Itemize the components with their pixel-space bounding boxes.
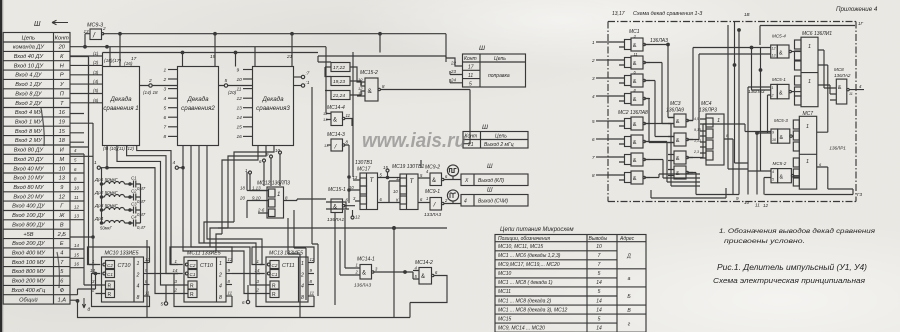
wire bottom common rail xyxy=(78,301,411,318)
svg-text:3: 3 xyxy=(592,76,595,81)
wire riser bundle xyxy=(739,30,771,195)
svg-text:2-6: 2-6 xyxy=(257,208,265,213)
wire 400kHz row xyxy=(70,274,96,295)
svg-text:Вход 100 ДУ: Вход 100 ДУ xyxy=(12,213,46,219)
svg-text:12: 12 xyxy=(396,176,401,181)
svg-text:14: 14 xyxy=(173,268,178,273)
wire to 2MHz table xyxy=(463,90,470,144)
svg-text:5: 5 xyxy=(598,271,601,277)
capacitor C3 xyxy=(130,202,146,218)
svg-text:Декада: Декада xyxy=(261,96,284,103)
svg-text:Выводы: Выводы xyxy=(589,236,608,242)
wire МС2 outputs to МС4 xyxy=(645,124,700,187)
svg-text:С2: С2 xyxy=(190,263,196,268)
svg-text:18: 18 xyxy=(59,138,66,144)
svg-text:Др1 50мкГ: Др1 50мкГ xyxy=(94,177,118,182)
svg-text:136ЛА2: 136ЛА2 xyxy=(834,73,851,78)
svg-text:Др2 50мкГ: Др2 50мкГ xyxy=(94,190,118,195)
svg-text:Е: Е xyxy=(60,241,64,247)
svg-text:12: 12 xyxy=(74,204,79,209)
svg-text:Вход 200 ДУ: Вход 200 ДУ xyxy=(12,241,46,247)
wires table rows to decade1 inputs xyxy=(70,55,103,57)
svg-text:15: 15 xyxy=(383,165,388,170)
svg-text:5: 5 xyxy=(598,289,601,295)
svg-text:С2: С2 xyxy=(131,189,137,194)
svg-text:Позиции, обозначения: Позиции, обозначения xyxy=(498,236,550,242)
svg-text:Вход 4 ДУ: Вход 4 ДУ xyxy=(15,73,43,79)
svg-text:1: 1 xyxy=(808,79,811,85)
svg-text:1: 1 xyxy=(137,261,140,267)
decade comparison block 2 xyxy=(178,67,219,146)
svg-text:МС5-1: МС5-1 xyxy=(772,77,786,82)
decade comparison block 1 xyxy=(103,67,140,146)
svg-text:&: & xyxy=(780,175,784,181)
wire table stub bus B xyxy=(70,114,96,274)
svg-text:МС5-4: МС5-4 xyxy=(772,34,786,39)
wire bundle decade1 to counter2 xyxy=(107,146,178,294)
IC МС7 136ЛР1 xyxy=(793,65,853,189)
svg-text:2,3: 2,3 xyxy=(693,150,699,154)
svg-text:(9) (10)(11) (12): (9) (10)(11) (12) xyxy=(103,146,134,151)
capacitor C4 xyxy=(130,215,146,231)
counter IC МС10 xyxy=(88,247,151,307)
wire МС15-1 to МС17 xyxy=(331,177,352,209)
svg-text:9: 9 xyxy=(736,196,739,201)
svg-text:Выход (СЧИ): Выход (СЧИ) xyxy=(478,199,508,205)
svg-text:Вход 100 МУ: Вход 100 МУ xyxy=(12,260,47,266)
svg-text:Конт: Конт xyxy=(464,56,477,62)
svg-text:Вход 800 МУ: Вход 800 МУ xyxy=(12,269,47,275)
svg-text:13: 13 xyxy=(237,106,243,112)
svg-text:20: 20 xyxy=(58,45,66,51)
connector table 2MHz xyxy=(463,124,528,148)
svg-text:&: & xyxy=(633,140,637,146)
svg-text:17: 17 xyxy=(468,65,474,71)
node 5 between counters xyxy=(164,302,167,305)
svg-text:3: 3 xyxy=(164,86,167,92)
svg-text:14: 14 xyxy=(237,115,243,121)
svg-text:14: 14 xyxy=(90,268,95,273)
svg-text:Ш: Ш xyxy=(34,21,41,28)
svg-text:11: 11 xyxy=(346,113,351,118)
svg-text:18: 18 xyxy=(240,186,245,191)
svg-text:12: 12 xyxy=(355,215,360,220)
svg-text:2,Б: 2,Б xyxy=(57,232,67,238)
svg-text:7: 7 xyxy=(598,262,601,268)
svg-text:&: & xyxy=(633,97,637,103)
svg-text:11: 11 xyxy=(755,203,760,208)
gate МС5-2 xyxy=(771,161,799,183)
wire cap right bus xyxy=(140,184,142,223)
svg-text:МС5-3: МС5-3 xyxy=(774,118,788,123)
wire long vertical x734 xyxy=(728,22,748,170)
svg-text:12: 12 xyxy=(59,194,66,200)
svg-text:2: 2 xyxy=(148,78,152,84)
svg-text:Вход 1 ДУ: Вход 1 ДУ xyxy=(15,82,43,88)
svg-text:СТ11: СТ11 xyxy=(282,263,295,269)
counter IC МС13 xyxy=(252,247,315,307)
connector table SChI xyxy=(461,188,528,207)
svg-text:&: & xyxy=(838,85,842,91)
pin labels above decades xyxy=(104,54,293,67)
svg-text:11: 11 xyxy=(237,86,242,92)
wire meander to KL xyxy=(452,176,454,179)
svg-text:5: 5 xyxy=(164,106,167,112)
svg-text:Вход 10 МУ: Вход 10 МУ xyxy=(13,176,44,182)
svg-text:4,5: 4,5 xyxy=(694,117,699,121)
svg-text:Адрес: Адрес xyxy=(619,236,635,242)
svg-text:12: 12 xyxy=(237,96,243,102)
svg-text:Выход 2 мГц: Выход 2 мГц xyxy=(484,142,514,148)
svg-text:1: 1 xyxy=(806,124,809,130)
meander symbol output KL xyxy=(447,165,458,176)
svg-text:Схема электрическая принципи: Схема электрическая принципиальная xyxy=(713,278,865,285)
gate МС14-2 xyxy=(404,260,447,303)
svg-text:1: 1 xyxy=(426,196,428,201)
svg-text:МС1 ... МС8 ( декада 1): МС1 ... МС8 ( декада 1) xyxy=(498,280,553,286)
inductor Др4 xyxy=(94,216,130,231)
svg-text:10: 10 xyxy=(59,166,66,172)
svg-text:сравнения3: сравнения3 xyxy=(256,105,290,112)
svg-text:1: 1 xyxy=(806,159,809,165)
node 11 right of decade3 xyxy=(294,85,302,87)
svg-text:136ЛР3: 136ЛР3 xyxy=(699,108,717,114)
svg-text:Цепь: Цепь xyxy=(22,35,35,41)
node 15 xyxy=(386,169,389,172)
svg-text:Декада: Декада xyxy=(109,96,132,103)
svg-text:23: 23 xyxy=(450,69,456,74)
counter IC МС11 xyxy=(170,247,233,307)
wires pinboxes to МС15-2 xyxy=(350,67,365,96)
svg-text:С3: С3 xyxy=(131,202,137,207)
svg-text:136ЛА3: 136ЛА3 xyxy=(650,38,668,44)
svg-text:&: & xyxy=(362,271,366,277)
svg-text:R: R xyxy=(108,284,112,290)
svg-text:сравнения 1: сравнения 1 xyxy=(103,105,138,112)
svg-text:8: 8 xyxy=(137,295,140,301)
svg-text:Цепь: Цепь xyxy=(495,134,507,140)
svg-text:R: R xyxy=(190,292,194,298)
svg-text:R: R xyxy=(108,292,112,298)
svg-text:5: 5 xyxy=(161,302,164,307)
svg-text:8: 8 xyxy=(219,295,222,301)
wires decade2 inputs xyxy=(168,69,178,71)
svg-text:9,10: 9,10 xyxy=(252,196,261,201)
wire vertical x353 from top xyxy=(352,52,354,156)
svg-text:МС5-2: МС5-2 xyxy=(773,161,787,166)
svg-text:В: В xyxy=(60,222,64,228)
node pins below decade3 xyxy=(263,159,266,162)
svg-text:Д: Д xyxy=(626,254,631,260)
svg-text:(16): (16) xyxy=(124,61,133,67)
svg-text:С1: С1 xyxy=(272,272,278,277)
svg-text:7: 7 xyxy=(164,125,167,131)
wire counter outputs chain xyxy=(150,274,261,302)
connector table Sh1 xyxy=(3,33,70,305)
gate МС9-3 xyxy=(84,23,107,40)
svg-text:2: 2 xyxy=(771,94,774,98)
pen stroke artifact xyxy=(41,108,44,146)
svg-text:МС14-2: МС14-2 xyxy=(415,260,433,266)
wire vert drops to decade tops xyxy=(110,34,380,67)
svg-text:(5): (5) xyxy=(93,88,99,93)
svg-text:11: 11 xyxy=(228,291,233,296)
svg-text:С2: С2 xyxy=(107,263,113,268)
wire long vertical x394 xyxy=(393,228,395,318)
svg-text:Р: Р xyxy=(60,73,64,79)
svg-text:&: & xyxy=(633,79,637,85)
svg-text:20: 20 xyxy=(239,196,245,201)
svg-text:11: 11 xyxy=(310,291,315,296)
svg-text:1,13: 1,13 xyxy=(252,186,261,191)
net number labels xyxy=(74,148,79,267)
node 2 between decade1-2 xyxy=(140,85,178,87)
wires into popravka table xyxy=(446,58,463,83)
svg-text:СТ10: СТ10 xyxy=(118,263,131,269)
gate МС14-4 xyxy=(323,105,352,126)
svg-text:Ш: Ш xyxy=(487,164,493,170)
svg-text:15: 15 xyxy=(237,125,243,131)
svg-text:+5В: +5В xyxy=(23,232,33,238)
svg-text:12: 12 xyxy=(763,203,769,208)
svg-text:&: & xyxy=(676,156,680,162)
svg-text:Вход 2 МУ: Вход 2 МУ xyxy=(15,138,43,144)
svg-text:4: 4 xyxy=(464,199,467,205)
svg-text:1: 1 xyxy=(717,118,720,124)
wire choke left bus xyxy=(101,168,103,223)
svg-text:4: 4 xyxy=(772,170,774,174)
svg-text:д: д xyxy=(88,307,91,313)
svg-text:5: 5 xyxy=(592,119,595,124)
svg-text:присвоены условно.: присвоены условно. xyxy=(724,239,805,245)
svg-text:МС3: МС3 xyxy=(670,101,681,107)
node 1 xyxy=(97,166,100,169)
svg-text:И: И xyxy=(60,148,64,154)
svg-text:&: & xyxy=(633,122,637,128)
svg-text:10: 10 xyxy=(393,189,398,194)
svg-text:11: 11 xyxy=(468,73,473,79)
svg-text:2: 2 xyxy=(591,58,595,63)
svg-text:19,23: 19,23 xyxy=(333,79,345,85)
svg-text:1Г: 1Г xyxy=(858,21,864,26)
svg-text:4: 4 xyxy=(164,96,167,102)
svg-text:Вход 800 ДУ: Вход 800 ДУ xyxy=(12,222,46,228)
svg-text:Вход 40 МУ: Вход 40 МУ xyxy=(13,166,44,172)
svg-text:Вход 20 ДУ: Вход 20 ДУ xyxy=(14,157,45,163)
gate МС15-2 xyxy=(360,70,470,101)
svg-text:13: 13 xyxy=(772,54,776,58)
svg-text:С2: С2 xyxy=(272,263,278,268)
wire МС3 outputs up to МС5 gates xyxy=(688,48,771,195)
connector table popravka xyxy=(463,45,526,87)
svg-text:4: 4 xyxy=(219,284,222,290)
svg-text:Цепь: Цепь xyxy=(494,56,506,62)
svg-text:&: & xyxy=(633,61,637,67)
svg-text:МС14-1: МС14-1 xyxy=(357,257,375,263)
svg-text:136ЛА9: 136ЛА9 xyxy=(666,108,684,114)
svg-text:Вход 200 МУ: Вход 200 МУ xyxy=(12,279,47,285)
svg-text:17,22: 17,22 xyxy=(333,65,345,71)
svg-text:14: 14 xyxy=(596,307,602,313)
svg-text:14: 14 xyxy=(255,268,260,273)
capacitor C2 xyxy=(130,189,146,205)
svg-text:13,17: 13,17 xyxy=(612,11,625,17)
svg-text:12: 12 xyxy=(772,47,776,51)
svg-text:1: 1 xyxy=(356,263,358,268)
svg-text::7: :7 xyxy=(306,71,310,76)
svg-text:&: & xyxy=(333,205,337,211)
wire row20 command xyxy=(70,47,326,114)
IC МС1 136ЛА3 gate stack xyxy=(608,29,668,105)
svg-text:МС9, МС14 ... МС20: МС9, МС14 ... МС20 xyxy=(498,325,545,331)
wire bottom run xyxy=(651,188,853,198)
svg-text:&: & xyxy=(421,274,425,280)
svg-text:0,47: 0,47 xyxy=(137,212,146,217)
svg-text:Вход 8 ДУ: Вход 8 ДУ xyxy=(15,91,43,97)
svg-text:Вход 40 ДУ: Вход 40 ДУ xyxy=(14,54,45,60)
svg-text:0,47: 0,47 xyxy=(137,199,146,204)
bottom pin labels 9-12 xyxy=(736,196,769,208)
svg-text:5: 5 xyxy=(598,316,601,322)
svg-text:9: 9 xyxy=(60,185,63,191)
node 12 xyxy=(352,210,354,216)
wire МС9-3 input from row 20 xyxy=(85,34,90,47)
svg-text:4: 4 xyxy=(173,160,176,166)
svg-text:10: 10 xyxy=(772,138,776,142)
svg-text:Общий: Общий xyxy=(19,296,37,303)
svg-text:МС11: МС11 xyxy=(498,289,511,295)
svg-text:МС19 130ТВ1: МС19 130ТВ1 xyxy=(392,164,424,170)
svg-text:10: 10 xyxy=(74,186,79,191)
wire net stubs xyxy=(70,154,84,268)
svg-text:&: & xyxy=(676,138,680,144)
svg-text:МС14-4: МС14-4 xyxy=(327,105,345,111)
svg-text:МС10 133ИЕ5: МС10 133ИЕ5 xyxy=(105,251,139,257)
svg-text:13: 13 xyxy=(59,176,66,182)
svg-text:6: 6 xyxy=(164,115,167,121)
flip-flop МС19 130ТВ1 xyxy=(389,164,430,210)
gate МС9-2 xyxy=(425,165,461,186)
svg-text:Приложение 4: Приложение 4 xyxy=(836,6,878,13)
svg-text:13: 13 xyxy=(358,91,363,96)
svg-text:16: 16 xyxy=(237,134,243,140)
svg-text:136ЛР1: 136ЛР1 xyxy=(829,146,846,151)
wire pulse to SChI xyxy=(452,201,454,203)
svg-text:М: М xyxy=(59,157,64,163)
svg-text:Схема декад сравнения 1-3: Схема декад сравнения 1-3 xyxy=(633,11,702,17)
svg-text:www.iais.ru: www.iais.ru xyxy=(362,130,466,152)
svg-text:Конт: Конт xyxy=(465,134,478,140)
svg-text:2: 2 xyxy=(102,26,106,31)
svg-text:15: 15 xyxy=(59,129,66,135)
svg-text:11: 11 xyxy=(849,92,853,96)
svg-text:&: & xyxy=(432,178,436,184)
input pins 1-4 xyxy=(596,41,608,43)
svg-text:сравнения2: сравнения2 xyxy=(181,105,215,112)
svg-text:0,47: 0,47 xyxy=(137,225,146,230)
svg-text:Вход 80 МУ: Вход 80 МУ xyxy=(13,185,44,191)
svg-text:Рис.1. Делитель импульсный: Рис.1. Делитель импульсный (У1, У4) xyxy=(717,262,867,272)
svg-text:(3): (3) xyxy=(93,70,99,75)
wire long vertical x147 xyxy=(146,240,148,318)
svg-text:14: 14 xyxy=(596,298,602,304)
svg-text:С1: С1 xyxy=(190,272,196,277)
svg-text:МС9,МС17, МС19,... МС20: МС9,МС17, МС19,... МС20 xyxy=(498,262,560,268)
svg-text:1: 1 xyxy=(301,261,304,267)
svg-text:Вход 2 ДУ: Вход 2 ДУ xyxy=(15,101,43,107)
svg-text:15: 15 xyxy=(74,252,79,257)
svg-text:МС4: МС4 xyxy=(701,101,712,107)
svg-text:(4): (4) xyxy=(93,79,99,84)
svg-text:10: 10 xyxy=(275,148,280,153)
svg-text:МС15-1: МС15-1 xyxy=(328,187,346,193)
pen stroke artifact 2 xyxy=(57,252,59,288)
svg-text:С1: С1 xyxy=(131,176,137,181)
svg-text:(2): (2) xyxy=(93,60,99,65)
direction arrow xyxy=(52,20,68,24)
wire verticals to lower rail xyxy=(288,87,318,318)
svg-text:Ш: Ш xyxy=(482,124,488,131)
inductor Др2 xyxy=(94,190,130,197)
svg-text:МС6 136ЛИ1: МС6 136ЛИ1 xyxy=(802,31,832,37)
wire МС17 out to МС19 xyxy=(353,156,395,203)
node 5 between decade2-3 xyxy=(219,85,253,87)
svg-text:МС11 133ИЕ5: МС11 133ИЕ5 xyxy=(187,251,221,257)
svg-text:10: 10 xyxy=(744,200,750,205)
svg-text:5: 5 xyxy=(469,81,472,87)
svg-text:R: R xyxy=(272,292,276,298)
svg-text:1: 1 xyxy=(592,40,595,45)
svg-text:МС9-3: МС9-3 xyxy=(87,23,103,29)
svg-text:2: 2 xyxy=(218,272,222,278)
wire +5V to bus xyxy=(70,236,93,238)
svg-text:МС2 136ЛА8: МС2 136ЛА8 xyxy=(618,110,648,116)
node 7 right of decade3 xyxy=(294,76,302,78)
svg-text:&: & xyxy=(780,135,784,141)
wire mc14-1 region xyxy=(218,210,447,305)
svg-text:Вход 10 ДУ: Вход 10 ДУ xyxy=(14,63,45,69)
svg-text:СТ10: СТ10 xyxy=(200,263,213,269)
svg-text:Конт: Конт xyxy=(55,35,69,41)
svg-text:1: 1 xyxy=(808,44,811,50)
svg-text:команда ДУ: команда ДУ xyxy=(13,45,45,51)
svg-text:&: & xyxy=(368,88,373,95)
node 4 xyxy=(175,166,178,169)
svg-text:9: 9 xyxy=(237,67,240,73)
wire table stub bus A xyxy=(70,57,96,265)
svg-text:Вход 20 МУ: Вход 20 МУ xyxy=(13,194,44,200)
svg-text:(1): (1) xyxy=(93,51,99,56)
power table xyxy=(495,235,646,332)
svg-text:1: 1 xyxy=(164,67,167,73)
wire obshiy row to rail xyxy=(70,299,78,301)
wire МС1 outputs to МС3 xyxy=(645,45,674,143)
svg-text:10: 10 xyxy=(596,244,602,250)
svg-text:X: X xyxy=(464,178,469,184)
svg-text:МС10: МС10 xyxy=(498,271,512,277)
pulse symbol output SChI xyxy=(447,190,458,201)
scan edge left xyxy=(0,0,2,332)
svg-text:8: 8 xyxy=(164,134,167,140)
svg-text::1: :1 xyxy=(306,80,310,86)
svg-text:МС8: МС8 xyxy=(834,67,844,72)
svg-text:Ш: Ш xyxy=(479,45,485,52)
svg-text:а: а xyxy=(628,276,631,282)
svg-text:2: 2 xyxy=(300,272,304,278)
svg-text:Выход (КЛ): Выход (КЛ) xyxy=(478,178,504,184)
svg-text:8: 8 xyxy=(592,173,595,178)
svg-text:8: 8 xyxy=(301,295,304,301)
